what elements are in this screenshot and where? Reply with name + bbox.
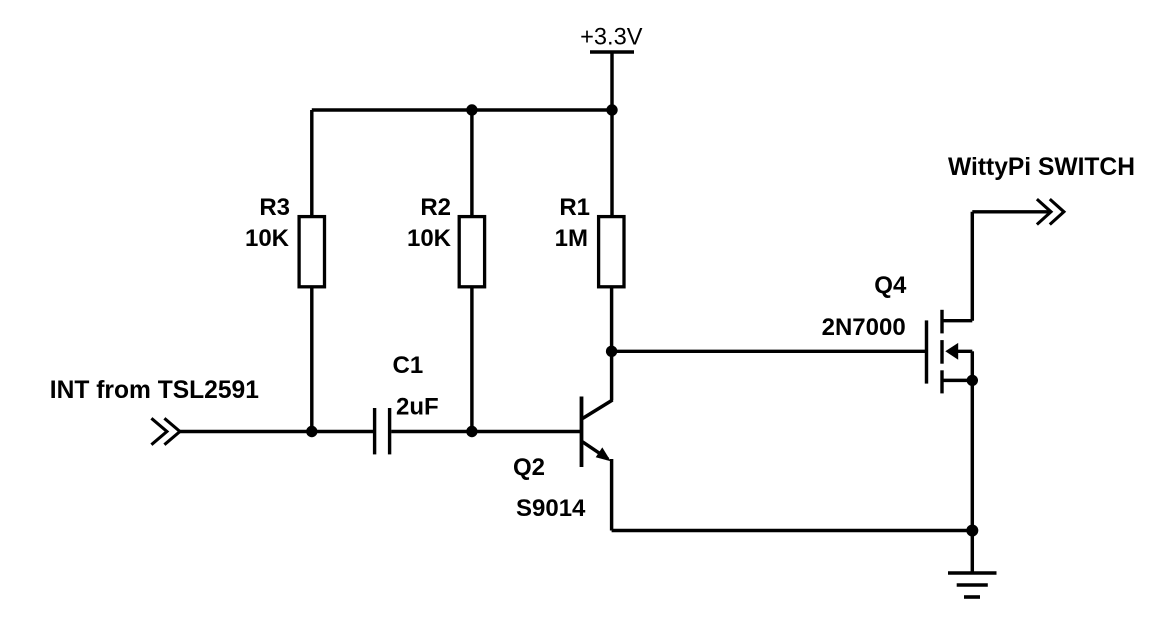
wire output horizontal [972,210,1049,213]
junction source/body [967,375,978,386]
wire Q4 source down [971,380,974,530]
junction bottom/ground [966,525,978,537]
svg-text:2uF: 2uF [396,394,439,421]
svg-text:R2: R2 [420,194,451,221]
svg-text:R3: R3 [259,194,290,221]
junction collector/gate [606,346,617,357]
wire from +3.3V to top rail [610,52,613,110]
junction input/R3 [306,426,317,437]
wire C1 to Q2 base [391,430,580,433]
wire top rail [312,108,612,111]
power +3.3V bar symbol [590,50,634,54]
svg-text:WittyPi SWITCH: WittyPi SWITCH [948,154,1135,181]
wire rail to R1 [610,110,613,215]
wire R3 to input net [310,287,313,432]
svg-text:10K: 10K [245,225,290,252]
svg-text:Q4: Q4 [874,272,907,299]
junction rail/R2 [466,104,477,115]
wire rail to R2 [470,110,473,215]
svg-text:S9014: S9014 [516,495,586,522]
input chevron arrows [151,418,180,444]
wire input to C1 [179,430,373,433]
wire Q2 emitter to bottom rail [610,459,613,531]
resistor R2 [459,217,484,287]
wire rail to R3 [310,110,313,215]
output chevron arrows [1037,199,1064,224]
svg-text:2N7000: 2N7000 [822,314,906,341]
resistor R1 [599,217,624,287]
resistor R3 [299,217,324,287]
transistor Q2 [582,397,613,468]
capacitor C1 [375,408,390,454]
wire bottom rail [612,529,973,532]
svg-text:INT from TSL2591: INT from TSL2591 [50,377,259,404]
mosfet Q4 [927,310,973,394]
wire R2 to base net [470,287,473,432]
ground [948,531,997,598]
wire Q4 drain to output [971,212,974,321]
svg-text:+3.3V: +3.3V [580,25,643,51]
wire collector to Q4 gate [612,350,927,353]
svg-text:10K: 10K [407,225,452,252]
wire R1 to collector node [610,287,613,401]
junction rail/R1 [606,104,617,115]
svg-text:Q2: Q2 [513,454,545,481]
svg-text:R1: R1 [559,194,590,221]
svg-text:C1: C1 [393,352,424,379]
svg-text:1M: 1M [555,225,588,252]
junction C1/R2 [466,426,477,437]
